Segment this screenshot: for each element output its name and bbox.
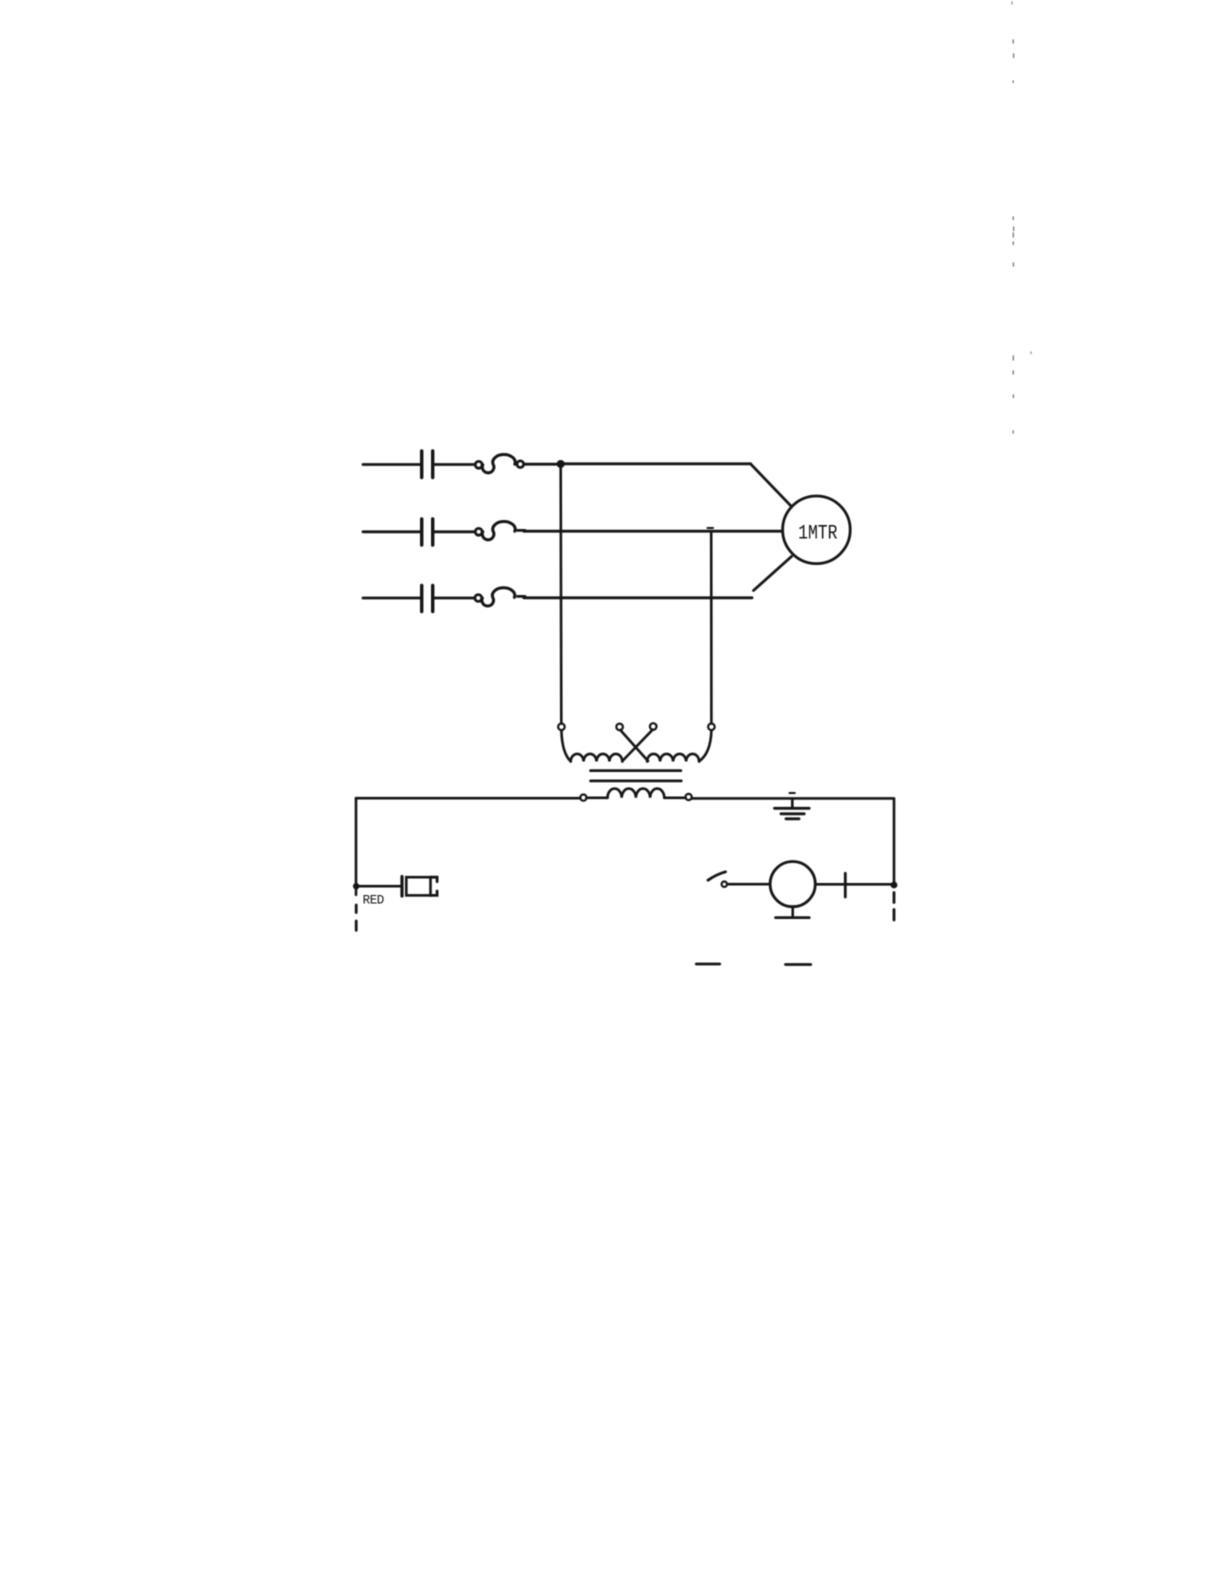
tick mark above L2 at second drop	[708, 527, 714, 529]
motor 1MTR circle	[783, 496, 851, 564]
wire L1 overload to junction	[524, 463, 561, 466]
transformer 1T core bar lower	[591, 780, 682, 783]
wire L3 left lead	[363, 597, 420, 600]
wire L2 overload to motor	[524, 530, 783, 533]
wire L1 junction to bend	[561, 462, 751, 465]
wire lamp to right node	[815, 883, 894, 886]
overload 1OL element C	[475, 595, 482, 602]
wire cross-link H2 to left winding	[622, 730, 652, 761]
wire left drop to plug node	[355, 798, 358, 895]
contact 1CON pole C (plates)	[422, 586, 433, 612]
ground GND bar 3	[786, 817, 799, 820]
transformer 1T secondary winding	[608, 789, 665, 798]
plug P1 (receptacle bar)	[400, 877, 403, 896]
wire secondary rail right segment	[692, 797, 894, 800]
ground GND bar 1	[775, 807, 810, 810]
switch S blade	[708, 872, 726, 880]
transformer 1T primary right lead curve	[699, 730, 711, 761]
wire L1 diagonal to motor	[751, 464, 792, 506]
wire L3 diagonal to motor	[754, 557, 792, 591]
svg-text:RED: RED	[363, 894, 384, 908]
switch S terminal circle	[722, 882, 727, 887]
overload 1OL element A (terminal circle, heater squiggle, terminal circle)	[475, 461, 482, 468]
transformer 1T primary terminal H4	[708, 724, 715, 731]
wire right drop to lamp node	[893, 799, 896, 885]
wire L3 overload to bend	[524, 596, 752, 599]
wire secondary winding to X2	[664, 796, 685, 799]
node junction dot T1 top	[557, 460, 565, 468]
continuation dash right	[786, 963, 811, 966]
lamp pilot light circle	[770, 862, 815, 907]
wire switch to lamp	[727, 883, 770, 886]
overload 1OL element B	[475, 528, 482, 535]
tick above ground	[790, 792, 795, 794]
node junction dot right	[891, 882, 898, 889]
transformer 1T primary terminal H1	[558, 724, 565, 731]
transformer 1T primary right winding	[647, 754, 699, 762]
contact 1CON pole A (plates)	[422, 451, 433, 478]
wire secondary rail left segment	[356, 797, 580, 800]
ground GND stub	[791, 799, 794, 808]
transformer 1T primary left winding	[571, 754, 623, 762]
continuation dash left	[696, 963, 719, 966]
lamp base bar	[776, 916, 810, 919]
transformer 1T primary left lead curve	[561, 730, 570, 761]
wire L2 contact to overload	[435, 530, 476, 533]
wire node to plug P1	[359, 885, 400, 888]
transformer 1T secondary terminal X2	[686, 794, 692, 800]
wire vertical drop T1-H1 (from L1 junction to transformer)	[559, 464, 562, 723]
lamp base stub	[791, 907, 794, 917]
node junction dot left	[353, 883, 359, 889]
transformer 1T primary terminal H2	[650, 723, 657, 730]
transformer 1T secondary terminal X1	[580, 795, 586, 801]
svg-text:1MTR: 1MTR	[798, 523, 837, 545]
wire vertical drop T1-H2 (from L2 to transformer)	[710, 532, 713, 724]
wire X1 to secondary winding	[587, 796, 608, 799]
wire L1 contact to overload	[435, 463, 476, 466]
ground GND bar 2	[781, 812, 804, 815]
plug P1 body rectangle	[406, 877, 430, 895]
transformer 1T primary terminal H3	[616, 724, 623, 731]
contact 1CON pole B (plates)	[422, 519, 433, 545]
wire L3 contact to overload	[435, 597, 475, 600]
plug P1 right bracket	[431, 877, 438, 895]
wire cross-link H3 to right winding	[620, 730, 648, 761]
wire dashed continuation right	[893, 893, 896, 921]
wire dashed continuation left	[355, 905, 358, 930]
scan artifact streak top right	[1012, 40, 1014, 433]
capacitor plate bar on lamp wire	[844, 873, 847, 897]
wire L2 left lead	[363, 530, 420, 533]
wire L1 left lead	[363, 463, 420, 466]
motor label 1MTR	[798, 523, 837, 545]
transformer 1T core bar upper	[591, 769, 681, 772]
